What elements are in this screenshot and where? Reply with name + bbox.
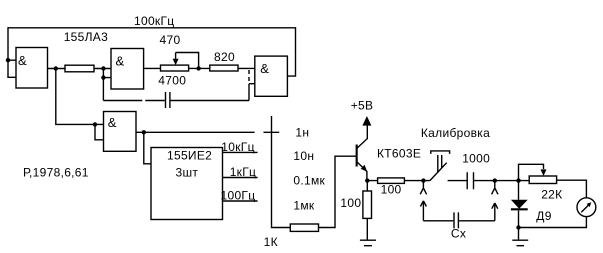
svg-text:820: 820 — [214, 50, 235, 64]
capacitor Cx — [454, 212, 458, 228]
gate U1.3 (&) — [255, 56, 288, 96]
gate U2 (&) — [104, 112, 137, 152]
svg-text:Сх: Сх — [451, 227, 466, 241]
wire 1К to base — [319, 156, 357, 227]
node ground junction — [516, 225, 520, 229]
wire gate3 input2 — [249, 84, 255, 101]
svg-text:+5В: +5В — [351, 99, 374, 113]
gate U1.1 (&) — [16, 48, 48, 89]
wire pot to meter — [557, 180, 587, 198]
wire dashed link — [248, 70, 250, 82]
node Cx right junction — [493, 178, 497, 182]
node switch junction — [421, 178, 425, 182]
wire meter to ground rail — [519, 217, 587, 228]
svg-text:100: 100 — [340, 196, 361, 210]
power +5В — [351, 99, 374, 126]
wire to counter input — [144, 132, 151, 164]
svg-text:4700: 4700 — [158, 74, 186, 88]
svg-text:155ЛА3: 155ЛА3 — [64, 30, 108, 44]
wire pot to 820 — [189, 67, 210, 69]
svg-text:470: 470 — [160, 33, 181, 47]
potentiometer 22К — [519, 164, 563, 201]
svg-text:&: & — [116, 54, 125, 69]
svg-text:1К: 1К — [264, 235, 278, 249]
svg-text:100Гц: 100Гц — [221, 189, 256, 203]
resistor 820 — [210, 65, 238, 71]
gate U1.2 (&) — [111, 49, 144, 90]
meter PA1 — [577, 198, 596, 217]
node wiper junction — [196, 66, 200, 70]
node gate1 output junction — [54, 66, 58, 70]
capacitor feedback — [166, 92, 170, 108]
terminal Cx left socket — [420, 181, 426, 195]
svg-text:0.1мк: 0.1мк — [293, 174, 325, 188]
potentiometer 4700 — [161, 53, 199, 72]
wire gate1 inputs — [8, 60, 16, 77]
transistor Q1 КТ603Е — [356, 126, 368, 181]
svg-text:Р,1978,6,61: Р,1978,6,61 — [23, 166, 89, 180]
terminal Cx right plug — [492, 203, 498, 221]
svg-text:&: & — [18, 53, 27, 68]
wire output 1kHz — [223, 177, 258, 179]
ground (diode) — [512, 240, 528, 246]
wire gate1 output — [48, 68, 66, 70]
svg-text:1кГц: 1кГц — [230, 165, 257, 179]
node gate4 output — [142, 130, 146, 134]
node emitter junction — [365, 178, 369, 182]
svg-text:&: & — [260, 61, 269, 76]
terminal Cx right socket — [492, 181, 498, 195]
svg-text:100: 100 — [381, 183, 402, 197]
wire Cx bottom — [423, 220, 494, 222]
wire 820 to gate3 — [238, 67, 255, 69]
svg-text:1000: 1000 — [462, 152, 490, 166]
resistor (unlabelled) — [65, 65, 94, 72]
node gate1 input junction — [6, 58, 10, 62]
wire gate2 output — [144, 67, 161, 69]
wire diode branch — [518, 181, 520, 240]
wire gate4 input tie — [95, 124, 104, 139]
node gate4 input — [93, 122, 97, 126]
resistor 100 (emitter, vertical) — [340, 181, 371, 240]
svg-text:Д9: Д9 — [536, 209, 551, 223]
wire down to gate4 — [56, 69, 104, 125]
node diode junction — [516, 178, 520, 182]
switch Калибровка — [430, 151, 450, 181]
svg-text:3шт: 3шт — [176, 166, 199, 180]
capacitor 1000 — [467, 172, 473, 189]
svg-text:10кГц: 10кГц — [221, 140, 254, 154]
wire switch to cap — [448, 180, 467, 182]
counter 155ИЕ2 box — [151, 148, 223, 220]
terminal Cx left plug — [420, 201, 426, 221]
svg-text:1н: 1н — [295, 126, 309, 140]
svg-text:&: & — [108, 115, 117, 130]
svg-text:100кГц: 100кГц — [134, 14, 174, 28]
svg-text:155ИЕ2: 155ИЕ2 — [167, 149, 212, 163]
wire cap to pot — [474, 180, 529, 182]
svg-text:1мк: 1мк — [293, 198, 315, 212]
wire output 10kHz — [223, 151, 258, 153]
wire feedback bottom — [103, 100, 249, 102]
svg-text:22К: 22К — [541, 188, 562, 202]
wire top feedback rail — [8, 28, 296, 76]
svg-text:10н: 10н — [293, 149, 314, 163]
svg-text:КТ603Е: КТ603Е — [377, 147, 421, 161]
resistor 1К — [290, 224, 318, 231]
resistor 100 (output, horizontal) — [367, 178, 430, 197]
node gate2 input1 — [101, 66, 105, 70]
diode Д9 — [511, 200, 528, 210]
node gate2 input2 — [101, 75, 105, 79]
wire output 100Hz — [223, 200, 258, 202]
wire gate4 output — [136, 131, 255, 133]
ground (emitter resistor) — [360, 240, 376, 246]
wire range rail — [264, 116, 291, 228]
svg-text:Калибровка: Калибровка — [421, 126, 490, 140]
wire resistor to gate2 — [94, 69, 111, 101]
